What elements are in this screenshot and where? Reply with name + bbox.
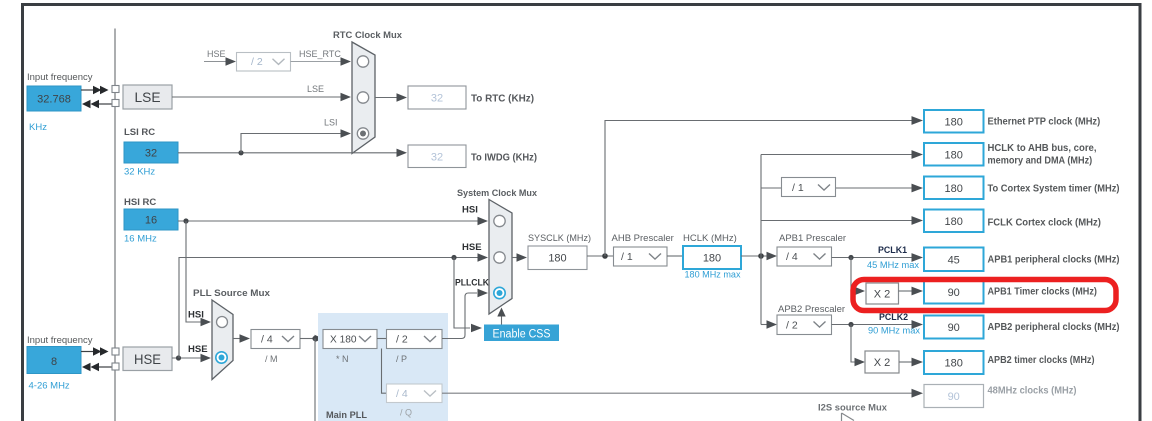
svg-text:PLLCLK: PLLCLK xyxy=(455,278,489,289)
wire RTC mux out xyxy=(375,93,407,101)
label HSI pll xyxy=(188,310,204,321)
svg-text:16: 16 xyxy=(145,215,157,227)
svg-text:X 2: X 2 xyxy=(874,289,891,301)
wire HSE down to CSS xyxy=(454,258,482,333)
svg-text:180: 180 xyxy=(945,183,963,195)
svg-text:16 MHz: 16 MHz xyxy=(124,234,157,245)
svg-text:/ 2: / 2 xyxy=(251,56,263,68)
svg-text:32: 32 xyxy=(431,93,443,105)
wire FCLK row xyxy=(761,216,923,225)
svg-text:180: 180 xyxy=(945,117,963,129)
svg-text:Ethernet PTP clock (MHz): Ethernet PTP clock (MHz) xyxy=(988,116,1101,128)
wire HSE to PLL mux xyxy=(172,354,211,362)
panel Main PLL xyxy=(318,313,448,421)
label 4-26 MHz xyxy=(29,381,70,392)
box HSI 16 xyxy=(124,209,178,230)
prescaler APB2 dropdown xyxy=(777,315,832,335)
svg-text:To Cortex System timer (MHz): To Cortex System timer (MHz) xyxy=(988,182,1120,194)
node PCLK2 junction xyxy=(848,322,853,327)
wire cortex divider out xyxy=(836,184,923,193)
node PCLK1 junction xyxy=(848,255,853,260)
label /M xyxy=(265,354,278,364)
box 48MHz value disabled xyxy=(924,385,984,408)
svg-text:HSE: HSE xyxy=(207,49,226,59)
multiplier X2 APB2 xyxy=(865,351,899,373)
wire LSI to mux xyxy=(241,129,351,153)
svg-text:I2S source Mux: I2S source Mux xyxy=(818,403,888,414)
svg-text:90: 90 xyxy=(948,391,960,403)
svg-text:SYSCLK (MHz): SYSCLK (MHz) xyxy=(528,233,591,244)
node HSI junction xyxy=(183,218,188,223)
wire APB2 row in xyxy=(761,320,777,328)
wire HSE in arrows xyxy=(81,347,109,356)
mux RTC Clock xyxy=(352,42,375,154)
label Main PLL xyxy=(326,410,367,421)
svg-text:Input frequency: Input frequency xyxy=(27,72,93,83)
wire AHB to HCLK xyxy=(667,255,683,257)
svg-text:HCLK (MHz): HCLK (MHz) xyxy=(683,233,737,244)
wire PCLK1 xyxy=(832,253,924,262)
wire LSE in arrows xyxy=(81,86,109,95)
oscillator LSE xyxy=(123,85,172,109)
box 8 MHz input xyxy=(27,347,81,374)
svg-text:RTC Clock Mux: RTC Clock Mux xyxy=(333,30,403,41)
svg-text:FCLK Cortex clock (MHz): FCLK Cortex clock (MHz) xyxy=(988,216,1101,228)
svg-text:180: 180 xyxy=(703,253,721,265)
box Cortex timer value xyxy=(924,177,984,200)
svg-text:APB2 Prescaler: APB2 Prescaler xyxy=(778,304,845,315)
svg-text:APB1 peripheral clocks (MHz): APB1 peripheral clocks (MHz) xyxy=(988,253,1120,265)
wire PLLCLK from P to system mux xyxy=(442,289,488,339)
label APB2 Prescaler xyxy=(778,304,845,315)
wire M out xyxy=(300,335,323,343)
label Q xyxy=(400,408,412,418)
box 32.768 KHz input xyxy=(27,86,81,111)
svg-text:90: 90 xyxy=(948,322,960,334)
box APB2 timer value xyxy=(924,351,984,374)
svg-text:System Clock Mux: System Clock Mux xyxy=(457,188,538,199)
svg-text:45 MHz max: 45 MHz max xyxy=(867,260,919,270)
svg-text:32: 32 xyxy=(145,148,157,160)
wire LSI to IWDG xyxy=(178,149,407,157)
mux I2S tip xyxy=(842,413,855,421)
wire N to P xyxy=(377,338,387,340)
svg-text:HSI: HSI xyxy=(188,310,204,321)
radio sys PLLCLK selected xyxy=(494,287,505,298)
box APB1 peripheral value xyxy=(924,248,984,272)
box HCLK value xyxy=(683,246,741,269)
svg-text:Enable CSS: Enable CSS xyxy=(493,329,551,341)
label APB1 Prescaler xyxy=(779,233,846,244)
wire HSE riser to system mux xyxy=(179,253,488,358)
box SYSCLK value xyxy=(528,246,587,270)
svg-text:HSE: HSE xyxy=(134,351,161,367)
label HCLK (MHz) xyxy=(683,233,737,244)
wire cortex row to divider xyxy=(761,187,782,189)
svg-text:180: 180 xyxy=(945,358,963,370)
label PLLCLK xyxy=(455,278,489,289)
divider cortex /1 dropdown xyxy=(782,178,836,197)
label Cortex timer xyxy=(988,182,1120,194)
svg-text:PCLK2: PCLK2 xyxy=(879,312,908,322)
multiplier X2 APB1 xyxy=(866,283,899,304)
label SYSCLK (MHz) xyxy=(528,233,591,244)
svg-text:180: 180 xyxy=(945,150,963,162)
label HSE pll xyxy=(188,344,208,355)
svg-text:32.768: 32.768 xyxy=(37,94,71,106)
svg-text:AHB Prescaler: AHB Prescaler xyxy=(612,233,674,244)
svg-text:90 MHz max: 90 MHz max xyxy=(868,326,920,336)
svg-text:APB2 timer clocks (MHz): APB2 timer clocks (MHz) xyxy=(988,354,1095,366)
radio HSE_RTC xyxy=(357,56,368,67)
wire HCLK riser xyxy=(760,155,762,325)
wire HCLK AHB bus row xyxy=(761,150,923,159)
node squares HSE xyxy=(112,348,119,370)
svg-text:/ 4: / 4 xyxy=(786,251,798,263)
box FCLK value xyxy=(924,210,984,233)
node HSE css junction xyxy=(451,255,456,260)
label RTC Clock Mux xyxy=(333,30,403,41)
svg-text:HSE_RTC: HSE_RTC xyxy=(299,49,341,59)
svg-text:* N: * N xyxy=(336,354,349,364)
radio sys HSE xyxy=(494,252,505,263)
svg-text:/ 4: / 4 xyxy=(396,388,408,400)
svg-text:180: 180 xyxy=(945,216,963,228)
label APB1 timer xyxy=(988,285,1097,297)
wire APB1 timer branch xyxy=(851,258,865,296)
svg-text:HSE: HSE xyxy=(188,344,208,355)
wire HSE_RTC to mux xyxy=(291,57,352,65)
label P xyxy=(396,354,407,364)
wire HCLK out xyxy=(741,252,777,260)
node HSE junction xyxy=(176,355,181,360)
wire LSE to RTC mux xyxy=(172,93,351,101)
svg-text:/ 2: / 2 xyxy=(786,320,798,332)
svg-text:/ 1: / 1 xyxy=(621,251,633,263)
wire N to Q branch xyxy=(382,349,387,394)
svg-text:KHz: KHz xyxy=(29,122,47,133)
node HCLK junction xyxy=(758,253,764,259)
svg-text:To RTC (KHz): To RTC (KHz) xyxy=(471,94,534,105)
svg-text:X 180: X 180 xyxy=(330,334,357,346)
label FCLK xyxy=(988,216,1101,228)
mux System Clock xyxy=(489,200,512,315)
label I2S source Mux xyxy=(818,403,888,414)
svg-text:memory and DMA (MHz): memory and DMA (MHz) xyxy=(988,155,1093,167)
wire PLL mux out xyxy=(233,334,250,342)
wire HSI to system mux xyxy=(178,217,488,225)
svg-text:180: 180 xyxy=(548,253,566,265)
label N xyxy=(336,354,349,364)
svg-text:32 KHz: 32 KHz xyxy=(124,167,155,178)
wire HSE to RTC divider xyxy=(204,57,236,65)
label 48MHz clocks xyxy=(988,385,1077,397)
highlight red APB1 timer xyxy=(853,280,1116,311)
label APB2 peripheral xyxy=(988,321,1120,333)
oscillator HSE xyxy=(123,347,172,371)
prescaler AHB dropdown xyxy=(614,247,668,266)
box APB2 peripheral value xyxy=(924,316,984,339)
wire M down to other PLLs xyxy=(314,339,316,421)
radio PLL HSE selected xyxy=(216,352,227,363)
wire LSE out arrows xyxy=(82,100,113,108)
svg-text:LSE: LSE xyxy=(135,89,161,105)
node squares LSE xyxy=(112,86,119,107)
svg-text:LSE: LSE xyxy=(307,84,324,94)
label PLL Source Mux xyxy=(193,288,271,299)
wire APB2 timer branch xyxy=(851,325,865,367)
box To IWDG value xyxy=(408,145,466,168)
svg-text:45: 45 xyxy=(948,255,960,267)
svg-text:APB1 Prescaler: APB1 Prescaler xyxy=(779,233,846,244)
svg-text:X 2: X 2 xyxy=(874,357,891,369)
svg-text:48MHz clocks (MHz): 48MHz clocks (MHz) xyxy=(988,385,1077,397)
label LSI near mux xyxy=(324,118,338,128)
label APB1 peripheral xyxy=(988,253,1120,265)
svg-text:90: 90 xyxy=(948,287,960,299)
divider /2 HSE_RTC dropdown xyxy=(237,53,291,72)
divider /M dropdown xyxy=(251,330,300,349)
wire mux to SYSCLK xyxy=(512,253,527,261)
label 180 MHz max xyxy=(685,270,741,280)
svg-text:HCLK to AHB bus, core,: HCLK to AHB bus, core, xyxy=(988,142,1097,154)
box HCLK AHB value xyxy=(924,143,984,166)
button Enable CSS xyxy=(484,325,559,342)
label To RTC xyxy=(471,94,534,105)
radio PLL HSI xyxy=(217,317,228,328)
label LSE near mux xyxy=(307,84,324,94)
label APB2 timer xyxy=(988,354,1095,366)
label KHz xyxy=(29,122,47,133)
wire HSE out arrows xyxy=(82,363,113,371)
svg-text:/ Q: / Q xyxy=(400,408,412,418)
wire X2 to APB2 timer box xyxy=(899,358,923,367)
svg-text:APB1 Timer clocks (MHz): APB1 Timer clocks (MHz) xyxy=(988,285,1097,297)
label HSE (RTC divider) xyxy=(207,49,226,59)
label 90 MHz max xyxy=(868,326,920,336)
label HSI RC xyxy=(124,197,156,208)
svg-text:Input frequency: Input frequency xyxy=(27,335,93,346)
box APB1 timer value xyxy=(924,281,984,304)
radio LSI selected xyxy=(357,128,368,139)
left rail wire xyxy=(114,29,116,421)
wire CSS up arrow xyxy=(497,308,505,325)
label HSE sys xyxy=(462,242,482,253)
radio LSE xyxy=(357,92,368,103)
label 16 MHz xyxy=(124,234,157,245)
label PCLK2 xyxy=(879,312,908,322)
divider P dropdown xyxy=(387,330,443,349)
label System Clock Mux xyxy=(457,188,538,199)
svg-text:8: 8 xyxy=(51,356,57,368)
wire Ethernet tap riser xyxy=(605,116,923,256)
label 32 KHz xyxy=(124,167,155,178)
wire X2 to APB1 timer box xyxy=(899,287,924,296)
svg-text:HSE: HSE xyxy=(462,242,482,253)
node M junction xyxy=(312,336,317,341)
svg-text:LSI: LSI xyxy=(324,118,338,128)
svg-text:To IWDG (KHz): To IWDG (KHz) xyxy=(471,153,537,164)
mux PLL Source xyxy=(212,300,233,380)
wire HSI down to PLL mux xyxy=(186,221,211,326)
prescaler APB1 dropdown xyxy=(777,247,832,266)
svg-text:/ 4: / 4 xyxy=(261,334,273,346)
node LSI junction xyxy=(238,150,243,155)
svg-text:4-26 MHz: 4-26 MHz xyxy=(29,381,70,392)
box To RTC value xyxy=(408,86,466,109)
svg-text:HSI RC: HSI RC xyxy=(124,197,156,208)
multiplier N dropdown xyxy=(323,330,377,349)
label HSI sys xyxy=(462,205,478,216)
svg-text:Main PLL: Main PLL xyxy=(326,410,367,421)
label To IWDG xyxy=(471,153,537,164)
wire SYSCLK to AHB xyxy=(587,255,614,257)
svg-text:PLL Source Mux: PLL Source Mux xyxy=(193,288,271,299)
wire PCLK2 xyxy=(832,320,924,329)
label Ethernet PTP xyxy=(988,116,1101,128)
box LSI 32 xyxy=(124,142,178,163)
svg-text:PCLK1: PCLK1 xyxy=(878,245,907,255)
svg-text:/ M: / M xyxy=(265,354,278,364)
radio sys HSI xyxy=(494,215,505,226)
node SYSCLK junction xyxy=(602,253,608,259)
svg-text:APB2 peripheral clocks (MHz): APB2 peripheral clocks (MHz) xyxy=(988,321,1120,333)
box Ethernet PTP value xyxy=(924,110,984,133)
svg-text:/ 2: / 2 xyxy=(396,334,408,346)
svg-text:/ 1: / 1 xyxy=(792,182,804,194)
label AHB Prescaler xyxy=(612,233,674,244)
label HSE_RTC xyxy=(299,49,341,59)
svg-text:32: 32 xyxy=(431,152,443,164)
label Input frequency (HSE) xyxy=(27,335,93,346)
divider Q dropdown disabled xyxy=(387,384,443,403)
label 45 MHz max xyxy=(867,260,919,270)
label HCLK AHB xyxy=(988,142,1097,167)
label PCLK1 xyxy=(878,245,907,255)
svg-text:LSI RC: LSI RC xyxy=(124,127,155,138)
svg-text:/ P: / P xyxy=(396,354,407,364)
wire 48MHz long xyxy=(442,389,923,398)
svg-text:HSI: HSI xyxy=(462,205,478,216)
svg-text:180 MHz max: 180 MHz max xyxy=(685,270,741,280)
label Input frequency (LSE) xyxy=(27,72,93,83)
label LSI RC xyxy=(124,127,155,138)
